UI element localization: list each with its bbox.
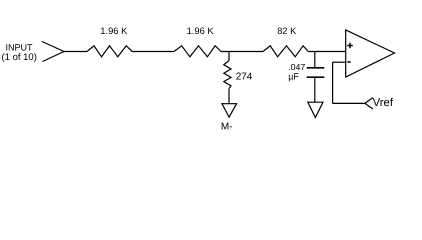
svg-text:1.96 K: 1.96 K [187, 26, 215, 36]
svg-text:82 K: 82 K [277, 26, 297, 36]
svg-text:274: 274 [236, 72, 253, 83]
wire [228, 89, 230, 104]
op-amp plus sign [347, 43, 353, 49]
wire [308, 51, 346, 53]
svg-text:µF: µF [288, 71, 299, 81]
wire [132, 51, 174, 53]
wire [221, 51, 263, 53]
resistor R3 82 K [263, 46, 308, 57]
svg-text:Vref: Vref [373, 97, 394, 109]
capacitor C1 top plate [307, 67, 325, 69]
ground triangle [308, 102, 323, 117]
wire [333, 61, 346, 63]
wire [228, 52, 230, 61]
resistor R2 1.96 K [174, 46, 221, 57]
resistor R4 274 [224, 61, 231, 89]
svg-text:1.96 K: 1.96 K [100, 26, 128, 36]
resistor R1 1.96 K [87, 46, 132, 57]
svg-text:(1 of 10): (1 of 10) [2, 52, 37, 63]
op-amp U1 [346, 30, 395, 77]
wire [314, 78, 316, 102]
wire [332, 62, 334, 103]
connector M- triangle [222, 104, 237, 117]
wire [64, 51, 87, 53]
wire [314, 52, 316, 68]
wire [333, 102, 365, 104]
input connector chevron [42, 42, 64, 62]
op-amp minus sign [347, 61, 350, 63]
capacitor C1 bottom plate [307, 76, 325, 78]
svg-text:M-: M- [221, 122, 233, 133]
connector Vref chevron [365, 98, 373, 109]
